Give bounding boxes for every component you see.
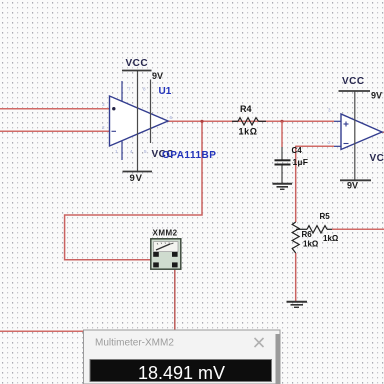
wire: R5 right side to edge [332,228,384,230]
wire: feedback node vertical down to R6 [295,146,297,222]
svg-text:R4: R4 [240,104,252,114]
svg-text:4: 4 [130,149,133,154]
wire: U2 -input to feedback node [296,145,334,147]
wire: U1 -input from left edge [0,130,110,132]
resistor R4 [232,104,266,137]
svg-text:9V: 9V [347,181,358,191]
svg-text:1kΩ: 1kΩ [323,234,339,243]
svg-text:U1: U1 [159,86,172,97]
svg-text:8: 8 [143,87,146,92]
svg-text:3: 3 [328,108,331,113]
wire: U2 output stub [381,131,384,133]
power -9V rail (bottom of U2) [340,180,371,190]
svg-text:2: 2 [102,125,105,130]
svg-text:1: 1 [115,149,118,154]
wire: bottom-left horizontal into window [0,330,85,332]
svg-text:VCC: VCC [370,153,384,164]
svg-text:Multimeter-XMM2: Multimeter-XMM2 [95,338,174,349]
ground (C4) [273,184,293,190]
svg-text:VCC: VCC [126,58,149,69]
svg-text:R5: R5 [320,212,331,221]
op-amp U1 [110,71,169,172]
wire: XMM2 right pin down to window [174,266,176,331]
capacitor C4 [275,121,309,183]
wire: U1 output to U2 +input [166,120,334,122]
svg-text:9V: 9V [371,91,382,101]
power VCC (top of U2) [339,76,383,101]
resistor R6 [292,222,319,253]
svg-text:9V: 9V [152,71,163,81]
svg-text:R6: R6 [302,230,313,239]
svg-text:2: 2 [328,140,331,145]
resistor R5 [296,212,339,243]
svg-text:7: 7 [128,87,131,92]
multimeter window Multimeter-XMM2 [84,330,281,384]
op-amp U2 [334,91,382,180]
svg-text:OPA111BP: OPA111BP [162,150,216,161]
svg-text:C4: C4 [292,146,303,155]
svg-text:VCC: VCC [342,76,365,87]
svg-text:5: 5 [144,149,147,154]
multimeter XMM2 icon [151,229,181,270]
svg-text:1kΩ: 1kΩ [303,240,319,249]
power VCC (top of U1) [122,58,163,81]
node: output junction [200,120,203,123]
wire: R6 bottom to ground [295,253,297,302]
svg-text:6: 6 [170,115,173,120]
pin numbers U2 [328,108,331,146]
pin numbers U1 [102,87,173,155]
svg-text:1kΩ: 1kΩ [239,127,258,137]
power -9V rail (bottom of U1) [123,172,153,185]
svg-text:XMM2: XMM2 [153,229,178,238]
ground (R6) [287,302,308,308]
svg-text:3: 3 [102,102,105,107]
svg-text:18.491 mV: 18.491 mV [138,363,225,383]
wire: U1 +input from left edge [0,108,110,110]
node: C4 branch junction [280,120,283,123]
svg-text:1µF: 1µF [293,157,309,167]
wire: feedback loop from output node down-left to XMM2 left pin [65,121,202,263]
svg-text:9V: 9V [130,173,143,184]
